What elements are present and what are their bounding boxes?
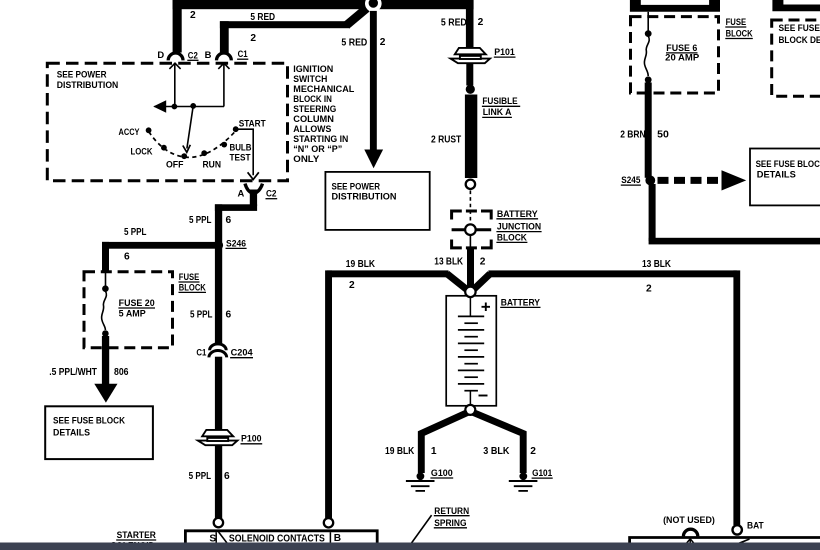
arrow to SEE FUSE BLOCK DETAILS (left) [94, 384, 117, 403]
bottom dark bar [0, 543, 820, 550]
svg-text:.5 PPL/WHT: .5 PPL/WHT [49, 367, 97, 378]
svg-text:SEE FUSE BLOCK: SEE FUSE BLOCK [756, 159, 820, 169]
svg-text:BATTERY: BATTERY [497, 208, 538, 219]
svg-text:DETAILS: DETAILS [53, 427, 90, 437]
svg-text:BLOCK IN: BLOCK IN [293, 94, 332, 104]
svg-text:JUNCTION: JUNCTION [497, 221, 541, 232]
wire: horizontal bus right 13 BLK [488, 270, 736, 277]
svg-text:MECHANICAL: MECHANICAL [293, 84, 354, 94]
svg-text:6: 6 [226, 310, 232, 321]
svg-text:6: 6 [226, 215, 232, 226]
component stub top right 1 [630, 0, 720, 12]
dashed box: fuse block (FUSE 6) [631, 17, 719, 93]
svg-text:DISTRIBUTION: DISTRIBUTION [57, 80, 119, 90]
svg-text:C1: C1 [196, 347, 206, 358]
switch node dot 2 [190, 103, 196, 109]
svg-text:B: B [205, 49, 212, 60]
svg-text:P100: P100 [241, 433, 262, 444]
svg-text:2: 2 [250, 33, 256, 44]
svg-text:A: A [238, 188, 245, 199]
dashed box: fuse block top-right (SEE FUSE BLOCK DETAILS) [772, 20, 820, 96]
svg-text:TEST: TEST [230, 151, 251, 162]
svg-text:2 RUST: 2 RUST [431, 134, 462, 145]
svg-text:C1: C1 [238, 48, 248, 59]
svg-text:19 BLK: 19 BLK [346, 259, 376, 270]
dashed box: ignition switch (SEE POWER DISTRIBUTION) [47, 63, 287, 181]
switch position dots [146, 127, 152, 133]
svg-text:“N” OR “P”: “N” OR “P” [293, 144, 342, 154]
connector A cup [245, 184, 253, 194]
battery top stub [469, 297, 471, 317]
svg-text:S245: S245 [621, 174, 640, 185]
svg-text:START: START [239, 118, 266, 129]
wire: corner A to main 5 PPL [215, 204, 257, 211]
svg-text:FUSE 20: FUSE 20 [119, 298, 155, 308]
svg-text:SEE FUSE BLOCK: SEE FUSE BLOCK [53, 416, 126, 426]
svg-text:SPRING: SPRING [434, 517, 466, 528]
node: fusible link top dot [466, 85, 475, 94]
switch node dot 1 [172, 104, 178, 110]
component stub top right 2 [772, 0, 820, 11]
battery bottom stub [469, 391, 471, 405]
svg-text:2 BRN: 2 BRN [620, 129, 645, 140]
box: SEE POWER DISTRIBUTION (middle) [325, 172, 429, 230]
wire: .5 PPL/WHT below fuse 20 [102, 336, 109, 384]
wire: 2 BRN below fuse 6 [645, 83, 652, 178]
splice S245 [645, 176, 655, 186]
wire: bus diagonal left into battery [447, 274, 468, 291]
wire: vertical feed top-left [173, 0, 182, 53]
pointer line to RETURN SPRING [411, 515, 432, 544]
terminal circle B at solenoid [324, 518, 333, 527]
svg-text:BATTERY: BATTERY [501, 296, 541, 307]
wire: 5 RED drop to power distribution arrow [370, 11, 377, 150]
fuse 20 element [105, 272, 107, 287]
svg-text:STEERING: STEERING [293, 104, 336, 114]
svg-text:5 PPL: 5 PPL [190, 310, 213, 321]
battery minus symbol [479, 395, 488, 397]
svg-text:6: 6 [224, 471, 230, 482]
connector D pin arrow [169, 63, 180, 106]
svg-text:BLOCK: BLOCK [179, 282, 207, 292]
box: SEE FUSE BLOCK DETAILS (left) [45, 406, 153, 459]
svg-text:BLOCK DETAILS: BLOCK DETAILS [779, 35, 820, 45]
contact blade at BAT [735, 539, 749, 545]
terminal circle S at solenoid [214, 518, 223, 527]
dashed wire into battery junction block [469, 191, 471, 224]
svg-text:COLUMN: COLUMN [293, 114, 334, 124]
battery bottom terminal circle [465, 405, 475, 415]
svg-text:OFF: OFF [166, 159, 184, 170]
svg-text:FUSE: FUSE [726, 17, 747, 27]
svg-text:(NOT USED): (NOT USED) [663, 514, 715, 525]
battery plus symbol [482, 303, 491, 312]
contact arrow under (NOT USED) [686, 539, 694, 546]
svg-text:20 AMP: 20 AMP [665, 53, 699, 63]
junction node top (with halo) [365, 0, 382, 12]
bottom right box [630, 538, 820, 550]
ground G100 [417, 472, 425, 480]
svg-text:5 RED: 5 RED [441, 17, 467, 28]
switch detent dashed arc [149, 131, 236, 158]
wire: branch to connector B (5 RED) [220, 21, 229, 53]
svg-text:5 AMP: 5 AMP [119, 309, 146, 319]
wire: 5 RED to P101 [466, 9, 474, 48]
dashed arrow to SEE FUSE BLOCK DETAILS (right) [658, 177, 722, 184]
svg-text:SEE POWER: SEE POWER [57, 70, 107, 80]
wire: 13 BLK battery feed [467, 248, 474, 288]
wire: bus diagonal right into battery [473, 274, 491, 291]
svg-text:2: 2 [530, 446, 536, 457]
svg-text:6: 6 [124, 252, 130, 263]
switch feed line horizontal [155, 106, 225, 108]
svg-text:RETURN: RETURN [434, 505, 469, 516]
switch START line to connector A [236, 129, 254, 175]
svg-text:FUSE 6: FUSE 6 [666, 43, 697, 53]
svg-text:5 PPL: 5 PPL [189, 215, 212, 226]
svg-text:G100: G100 [431, 467, 453, 478]
svg-text:3 BLK: 3 BLK [483, 446, 510, 457]
fusible link A bar [465, 95, 477, 179]
connector D arc [168, 53, 183, 60]
svg-text:IGNITION: IGNITION [293, 64, 333, 74]
wire: connector A stem [250, 190, 257, 207]
svg-text:19 BLK: 19 BLK [385, 446, 415, 457]
wire: junction block circle to thick lead [469, 235, 471, 248]
ground G101 [519, 472, 527, 480]
svg-text:ONLY: ONLY [293, 154, 319, 164]
connector B pin arrow [218, 63, 229, 106]
solenoid contacts box [185, 531, 377, 550]
connector P101 saucer [451, 48, 491, 63]
svg-text:2: 2 [190, 10, 196, 21]
arrow to SEE POWER DISTRIBUTION [364, 150, 383, 169]
svg-text:STARTING IN: STARTING IN [293, 134, 348, 144]
svg-text:BLOCK: BLOCK [497, 231, 527, 242]
svg-text:2: 2 [380, 37, 386, 48]
wire: battery to G100 [421, 413, 467, 474]
svg-text:5 PPL: 5 PPL [124, 227, 147, 238]
svg-text:DISTRIBUTION: DISTRIBUTION [332, 192, 397, 202]
battery box [446, 296, 496, 406]
dashed box: fuse block (FUSE 20) [84, 272, 173, 348]
wire: 19 BLK vertical to solenoid B [325, 270, 332, 518]
battery top terminal circle [465, 287, 475, 297]
switch wiper arrow to OFF [187, 106, 193, 149]
svg-text:BLOCK: BLOCK [726, 29, 754, 39]
svg-text:SEE POWER: SEE POWER [332, 181, 381, 191]
wire: 13 BLK vertical to BAT [733, 270, 740, 525]
svg-text:SWITCH: SWITCH [293, 74, 327, 84]
svg-text:G101: G101 [532, 467, 552, 478]
terminal circle below fusible link [466, 180, 475, 189]
wire: P101 to fusible link [466, 64, 473, 86]
wire: battery to G101 [473, 413, 523, 474]
fuse 6 element [647, 12, 649, 32]
battery plates [458, 316, 484, 390]
terminal circle BAT [733, 525, 742, 534]
box: SEE FUSE BLOCK DETAILS (right) [750, 149, 820, 206]
wire: branch left 5 PPL [102, 242, 219, 249]
svg-text:FUSE: FUSE [179, 272, 200, 282]
svg-text:806: 806 [114, 367, 129, 378]
svg-text:1: 1 [431, 446, 437, 457]
svg-text:LINK A: LINK A [483, 106, 512, 117]
svg-text:5 RED: 5 RED [250, 12, 275, 23]
svg-text:DETAILS: DETAILS [757, 170, 796, 180]
connector B arc [217, 53, 232, 60]
wire: top horizontal bus 5 RED [173, 0, 474, 9]
svg-text:S246: S246 [226, 237, 246, 248]
svg-text:5 RED: 5 RED [341, 38, 367, 49]
wire: below S245 L to right edge [649, 184, 656, 241]
svg-text:FUSIBLE: FUSIBLE [482, 95, 517, 106]
svg-text:C2: C2 [266, 188, 277, 199]
svg-text:RUN: RUN [203, 159, 222, 170]
svg-text:13 BLK: 13 BLK [642, 259, 672, 270]
svg-text:D: D [157, 49, 164, 60]
svg-text:13 BLK: 13 BLK [434, 257, 463, 268]
svg-text:ALLOWS: ALLOWS [293, 124, 331, 134]
svg-text:ACCY: ACCY [119, 126, 141, 137]
svg-text:C204: C204 [231, 347, 254, 358]
svg-text:2: 2 [349, 280, 355, 291]
wire: horizontal bus left 19 BLK [327, 270, 449, 277]
switch left arrow [153, 100, 166, 113]
svg-text:C2: C2 [188, 49, 198, 60]
svg-text:2: 2 [480, 257, 486, 268]
wire: main 5 PPL vertical [215, 204, 222, 518]
note: ignition switch block [293, 64, 354, 164]
battery junction block circle [465, 224, 476, 235]
svg-text:2: 2 [646, 284, 652, 295]
svg-text:P101: P101 [494, 46, 515, 57]
svg-text:5 PPL: 5 PPL [189, 471, 212, 482]
battery junction block brackets [452, 211, 492, 248]
svg-text:LOCK: LOCK [131, 145, 153, 156]
connector P100 saucer [198, 430, 238, 445]
svg-text:BAT: BAT [747, 520, 764, 531]
svg-text:50: 50 [657, 129, 669, 140]
connector C204 arcs [212, 345, 225, 357]
splice S246 [214, 241, 223, 250]
svg-text:2: 2 [478, 17, 484, 28]
(NOT USED) arc [683, 529, 697, 536]
svg-text:SEE FUSE: SEE FUSE [779, 23, 820, 33]
